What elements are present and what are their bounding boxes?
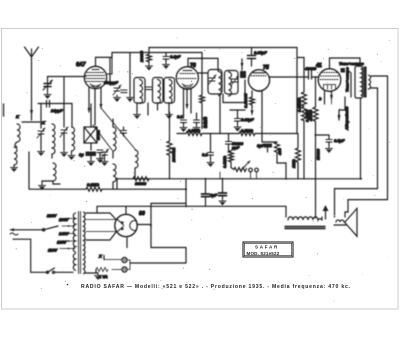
- svg-text:6μF: 6μF: [257, 143, 265, 148]
- wire riser to bus: [185, 179, 187, 207]
- AC mains squiggle: [10, 233, 18, 235]
- core: [79, 212, 81, 274]
- vertical resistor R9 0.5M: [298, 58, 307, 179]
- wire diagonal to oscillator coils: [93, 108, 135, 150]
- svg-text:30000: 30000: [135, 181, 147, 186]
- svg-text:24μμF: 24μμF: [50, 108, 63, 113]
- svg-text:8μF: 8μF: [210, 193, 218, 198]
- secondary winding: [84, 212, 86, 274]
- junction dots: [116, 134, 362, 227]
- svg-text:SAFAR: SAFAR: [255, 245, 279, 250]
- wire junctions mid: [219, 172, 221, 179]
- oscillator coil L5: [135, 150, 138, 179]
- oscillator coil L6: [113, 164, 116, 189]
- svg-text:0.1μF: 0.1μF: [170, 54, 181, 59]
- wire: [285, 164, 287, 179]
- resistor R5 0.5M vertical (volume): [229, 151, 235, 170]
- output transformer T4: [341, 66, 371, 98]
- wires under T3: [220, 80, 245, 134]
- svg-text:MOD. 521e522: MOD. 521e522: [247, 251, 280, 256]
- capacitor 500uuF: [104, 58, 121, 102]
- svg-text:0.5MΩ: 0.5MΩ: [241, 128, 254, 133]
- wire V2 to T3 can: [198, 72, 208, 74]
- svg-text:160V: 160V: [59, 217, 69, 222]
- capacitor 8uF cathode black: [86, 152, 97, 167]
- capacitor C7 0.01 with ground: [234, 110, 241, 132]
- rectifier tube V5 80: [115, 206, 137, 236]
- svg-text:220V: 220V: [46, 213, 57, 218]
- capacitor with ground osc: [97, 150, 104, 163]
- capacitor 50000uuF: [226, 134, 232, 152]
- svg-text:0.05μF: 0.05μF: [254, 50, 267, 55]
- V2 pin wires: [184, 88, 192, 118]
- svg-text:140V: 140V: [59, 231, 69, 236]
- vertical resistor R8 1M: [296, 134, 301, 179]
- tuning gang trimmer C2: [60, 127, 68, 157]
- svg-text:0.25MΩ: 0.25MΩ: [297, 97, 302, 112]
- svg-text:Tono+campo: Tono+campo: [345, 67, 350, 92]
- svg-text:0.5μF: 0.5μF: [334, 138, 345, 143]
- speaker: [334, 208, 357, 236]
- svg-text:50000: 50000: [316, 148, 321, 160]
- filter cap 8uF no2: [219, 179, 227, 206]
- IF transformer T2 can b: [164, 78, 175, 104]
- wire V1 grid left: [48, 76, 86, 78]
- capacitor C5 with ground: [180, 120, 187, 132]
- svg-text:80: 80: [139, 211, 145, 217]
- svg-text:75: 75: [263, 65, 269, 71]
- svg-text:20000: 20000: [139, 50, 144, 63]
- ground: [39, 183, 46, 190]
- wire V1 plate to top bus: [96, 48, 298, 58]
- wire: [116, 179, 118, 189]
- V3 cathode parts: [250, 91, 287, 165]
- tube V1 6A7: [84, 57, 112, 88]
- wire V4 plate loop to output transformer: [330, 58, 361, 69]
- antenna coil L1: [14, 124, 20, 165]
- svg-text:47000: 47000: [308, 109, 313, 122]
- RF coil L2: [52, 124, 55, 158]
- B+ arrow up: [323, 205, 329, 219]
- svg-text:125V: 125V: [57, 240, 67, 245]
- filter choke / field coil: [285, 217, 325, 229]
- field coil arrow: [338, 97, 346, 121]
- grid return bus: [29, 188, 186, 190]
- SAFAR model box: [243, 242, 293, 257]
- tube V3 75: [248, 70, 269, 92]
- wire with ground near V1: [121, 53, 134, 103]
- V1 pin wires: [88, 87, 103, 125]
- primary taps: [60, 218, 75, 250]
- scan speckle noise: [16, 37, 391, 301]
- svg-text:μμF: μμF: [231, 145, 240, 150]
- resistor R7 0.2M inline: [86, 187, 102, 191]
- svg-text:0.1μF: 0.1μF: [202, 117, 207, 128]
- oscillator coil L7: [113, 119, 116, 158]
- vertical resistor R10 50000: [313, 77, 318, 218]
- IF transformer T3 can b: [225, 71, 239, 97]
- tube V2 78: [176, 67, 198, 89]
- IF transformer T3 can a: [208, 70, 222, 96]
- svg-text:0.2MΩ: 0.2MΩ: [87, 182, 100, 187]
- grid trimmer with ground: [43, 77, 53, 100]
- filter cap 8uF no1: [202, 179, 210, 207]
- wire speaker run 2: [335, 88, 378, 217]
- svg-text:0.5MΩ: 0.5MΩ: [188, 128, 201, 133]
- capacitor between cans: [146, 87, 152, 90]
- wire: [28, 152, 30, 189]
- capacitor C4 0.1uF: [163, 53, 170, 70]
- svg-text:8μ: 8μ: [79, 152, 84, 157]
- mains switch: [46, 268, 73, 273]
- potentiometer with jacks: [234, 161, 258, 179]
- primary winding: [73, 213, 75, 252]
- B+ from rectifier: [137, 203, 186, 224]
- svg-text:Tono+campo: Tono+campo: [339, 61, 364, 66]
- svg-text:78: 78: [190, 63, 196, 69]
- wires under cans: [134, 103, 173, 119]
- coil L4: [68, 127, 75, 160]
- ground: [11, 165, 18, 172]
- wire screen bus down: [296, 48, 298, 134]
- voltage selector arm: [9, 226, 58, 231]
- svg-text:40000: 40000: [304, 66, 317, 71]
- svg-text:Altoparlante: Altoparlante: [344, 106, 349, 131]
- grid cap of V3: [240, 59, 246, 78]
- wire speaker run 1: [345, 76, 388, 217]
- capacitor C6 with ground: [193, 113, 200, 132]
- svg-text:0.01μF: 0.01μF: [241, 117, 254, 122]
- resistor R11 20000 vertical: [167, 112, 172, 179]
- svg-text:0.5MΩ: 0.5MΩ: [222, 155, 227, 168]
- wire antenna to coils: [22, 116, 40, 122]
- svg-text:110V: 110V: [48, 248, 57, 253]
- padder box: [84, 104, 97, 150]
- main AVC bus: [117, 178, 361, 180]
- transformer bottom ground: [85, 273, 102, 280]
- svg-text:RADIO SAFAR — Modelli: «521 e: RADIO SAFAR — Modelli: «521 e 522» . - P…: [81, 284, 351, 290]
- resistor R6 30000 inline: [133, 177, 149, 181]
- oscillator coil L3: [53, 163, 60, 184]
- svg-text:20000Ω: 20000Ω: [171, 147, 176, 163]
- capacitor 24uuF on link wire: [38, 101, 72, 129]
- svg-text:0.1: 0.1: [202, 152, 208, 157]
- svg-text:0.00005: 0.00005: [243, 93, 248, 108]
- svg-text:400: 400: [277, 148, 282, 156]
- V2 socket arc: [180, 87, 195, 90]
- capacitor 0.05uF: [248, 48, 256, 67]
- tube V4 41: [318, 69, 341, 92]
- svg-text:1MΩ: 1MΩ: [291, 158, 296, 168]
- scan mark: [3, 104, 5, 116]
- oscillator can T1: [134, 78, 145, 104]
- power transformer T5: [73, 212, 85, 274]
- resistor R4 0.5M horizontal: [239, 132, 297, 136]
- resistor R2 50000: [200, 53, 205, 129]
- trimmer capacitor C1: [37, 128, 45, 156]
- wire V3 plate to V4: [269, 76, 306, 78]
- resistor R3 0.5M horizontal: [177, 132, 206, 136]
- rectifier B+ bus: [97, 206, 286, 217]
- wire V2 plate to T3: [188, 58, 218, 71]
- wire vertical to link: [63, 77, 65, 128]
- svg-text:41: 41: [315, 63, 322, 69]
- wire B+ from output transformer: [360, 98, 362, 179]
- svg-text:1 VA: 1 VA: [99, 274, 108, 279]
- capacitor C8 40000: [306, 71, 318, 79]
- pilot lamp circuit: [96, 226, 186, 273]
- svg-text:0.1: 0.1: [177, 114, 183, 119]
- wire: [230, 109, 245, 111]
- svg-text:X: X: [98, 254, 102, 259]
- capacitor 0.1uF detector: [207, 134, 214, 168]
- heater wires to V5: [86, 220, 116, 232]
- IF transformer T2 can a: [153, 78, 164, 104]
- capacitor small padder-L5: [121, 127, 127, 136]
- AC lower lead: [13, 239, 46, 272]
- resistor R1 20000: [146, 53, 153, 71]
- antenna: [25, 47, 39, 116]
- V4 pin wires: [325, 91, 334, 104]
- wire: [206, 133, 239, 135]
- trimmer osc: [101, 149, 109, 166]
- capacitor 0.5uF: [316, 135, 333, 153]
- HV plate wires: [86, 213, 116, 220]
- svg-text:6A7: 6A7: [76, 62, 87, 68]
